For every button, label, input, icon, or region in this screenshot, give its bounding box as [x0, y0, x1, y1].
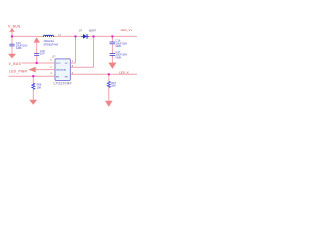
svg-text:VCC: VCC: [56, 63, 61, 65]
svg-text:GMK: GMK: [16, 46, 22, 50]
svg-text:2: 2: [50, 66, 52, 69]
svg-text:10K: 10K: [111, 84, 116, 88]
svg-text:GND(SUB): GND(SUB): [56, 70, 66, 72]
svg-text:LED_V+: LED_V+: [121, 28, 133, 32]
svg-text:SPD62R-NH: SPD62R-NH: [43, 43, 58, 47]
svg-text:V_BUS: V_BUS: [8, 25, 21, 29]
svg-text:EN: EN: [56, 76, 59, 78]
svg-text:10K: 10K: [37, 85, 42, 89]
svg-text:LED_PWR: LED_PWR: [9, 70, 27, 74]
svg-text:MBR?: MBR?: [89, 29, 97, 33]
svg-text:GMK: GMK: [116, 56, 122, 60]
svg-text:LP3220MF: LP3220MF: [54, 81, 72, 85]
svg-text:U?: U?: [52, 55, 56, 59]
svg-text:5: 5: [50, 59, 52, 62]
svg-text:4: 4: [50, 72, 52, 75]
svg-text:1: 1: [72, 60, 74, 63]
svg-text:LED_K: LED_K: [119, 70, 129, 74]
svg-text:D?: D?: [79, 29, 83, 33]
svg-text:10UH/1A: 10UH/1A: [43, 39, 54, 43]
svg-text:1UF: 1UF: [40, 51, 45, 55]
svg-text:GMK: GMK: [116, 44, 122, 48]
svg-text:V_BUS: V_BUS: [9, 62, 22, 66]
